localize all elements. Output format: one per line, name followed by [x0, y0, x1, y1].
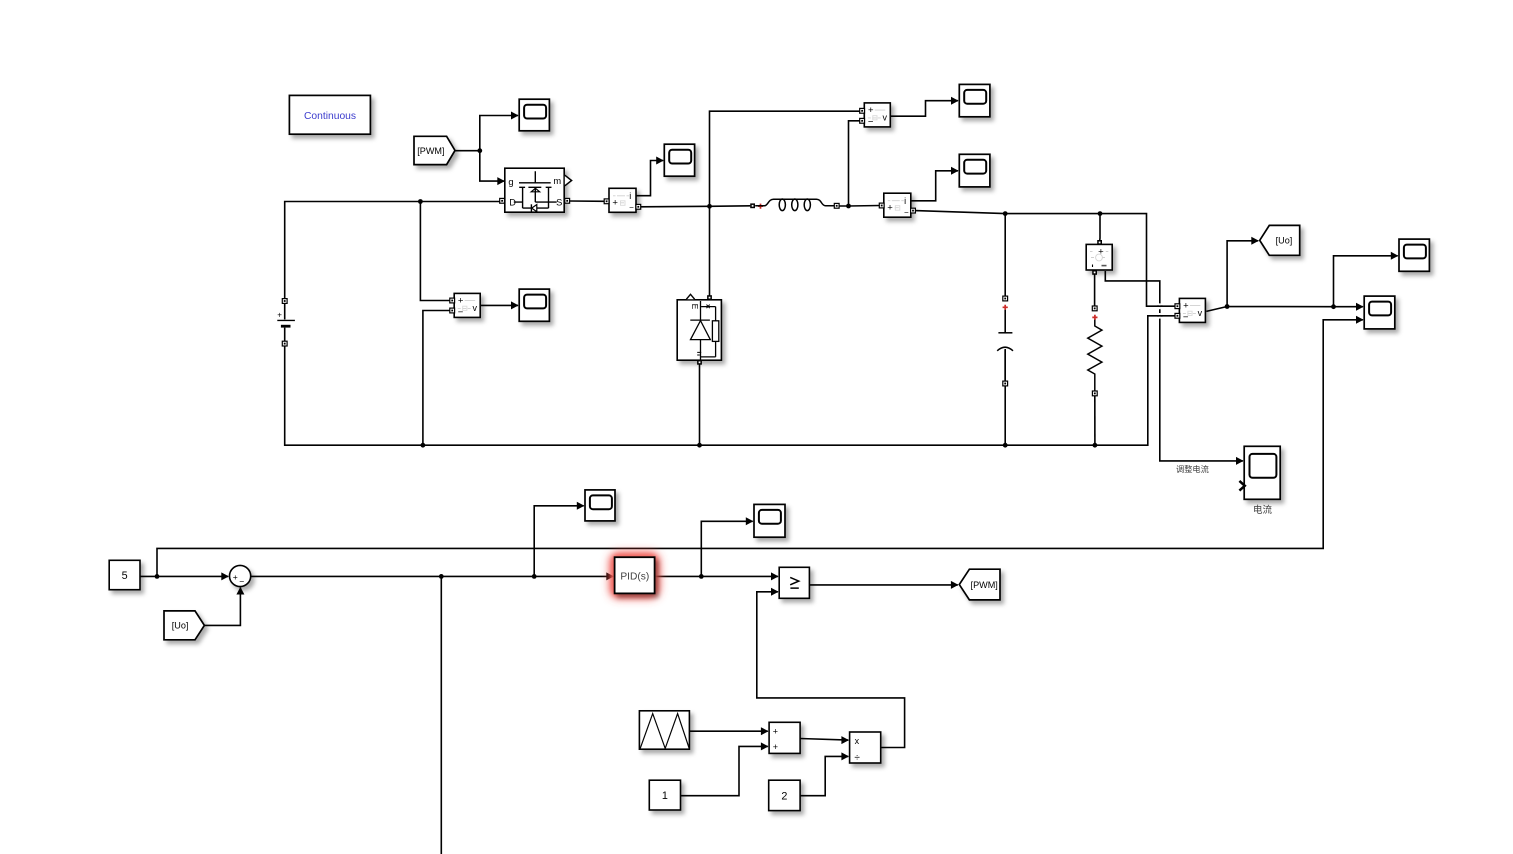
svg-text:g: g	[508, 177, 513, 187]
wire product output to relational operator second input	[757, 592, 905, 748]
inductor L1	[750, 203, 755, 208]
wire VL measurement output to scope	[890, 101, 958, 117]
diode D1 block	[677, 300, 721, 360]
junction Vin+/Vds+	[418, 199, 423, 204]
wire MOSFET S to current measurement I1 +	[569, 200, 605, 202]
scope Scope10 Vout vs ref	[1364, 296, 1395, 329]
svg-text:5: 5	[122, 570, 128, 582]
constant block 5 (reference)	[109, 560, 140, 589]
wire node A down to diode cathode	[709, 206, 711, 296]
wire repeating sequence to sum2	[689, 730, 767, 732]
wire junction down to Vds measurement + input	[420, 202, 450, 301]
relational operator &gt;= block	[779, 567, 809, 598]
wire bottom rail to Vds measurement - input	[423, 311, 450, 446]
svg-text:[Uo]: [Uo]	[1276, 236, 1293, 246]
wire error to scope6	[534, 506, 584, 577]
diode cathode port	[707, 295, 712, 300]
constant block 1	[649, 780, 680, 810]
From tag [Uo] bottom	[164, 611, 204, 640]
svg-text:+: +	[233, 572, 238, 582]
current measurement I2	[884, 193, 911, 217]
svg-text:m: m	[553, 176, 561, 186]
wire resistor R1 to bottom rail	[1094, 394, 1096, 446]
wire sum2 to product	[800, 739, 848, 741]
svg-text:[PWM]: [PWM]	[417, 146, 444, 156]
svg-text:E: E	[690, 304, 700, 310]
wire I3 to resistor R1	[1094, 272, 1096, 308]
resistor R1 (load)	[1092, 306, 1097, 311]
scope Scope4 IL	[959, 154, 990, 187]
svg-text:v: v	[1198, 308, 1203, 318]
svg-text:+: +	[277, 311, 282, 320]
svg-text:调整电流: 调整电流	[1176, 464, 1209, 474]
junction error signal to bottom	[439, 574, 444, 579]
junction bottom rail / resistor	[1093, 443, 1098, 448]
product/divide block	[850, 732, 881, 763]
scope Scope5 Vds	[519, 289, 549, 321]
junction bottom rail / capacitor	[1003, 443, 1008, 448]
svg-text:−: −	[629, 203, 634, 212]
junction Vout/resistor branch	[1098, 211, 1103, 216]
scope Scope6 error	[585, 490, 615, 521]
svg-text:v: v	[472, 303, 477, 313]
wire I2 i output to scope	[911, 171, 959, 201]
wire PID output to relational operator	[655, 575, 778, 577]
wire crossing gaps	[1159, 303, 1161, 318]
wire junction up to scope9	[1334, 256, 1398, 307]
voltage measurement VL	[864, 103, 890, 127]
wire constant5 to sum	[140, 575, 228, 577]
Goto tag [Uo] top right	[1260, 225, 1300, 255]
wire junction up to goto [Uo]	[1227, 241, 1258, 307]
current measurement I3 (load)	[1086, 244, 1112, 270]
scope Scope3 VL	[959, 84, 990, 116]
junction PID output	[699, 574, 704, 579]
svg-text:+: +	[773, 742, 778, 752]
MOSFET m output unconnected arrow	[565, 175, 572, 186]
current measurement I1	[609, 188, 636, 212]
sum block S2	[769, 722, 800, 753]
wire constant2 to product divide input	[800, 756, 848, 795]
svg-text:x: x	[855, 736, 860, 746]
svg-text:+: +	[868, 105, 874, 116]
wire I1 i output to scope2	[636, 161, 663, 196]
MOSFET D port	[500, 198, 505, 203]
repeating sequence block (sawtooth)	[639, 711, 689, 749]
junction error signal to scope6	[532, 574, 537, 579]
wire capacitor branch	[1004, 214, 1006, 299]
junction bottom rail / battery-	[421, 443, 426, 448]
svg-text:−: −	[904, 208, 909, 217]
MOSFET Q1 block	[505, 168, 564, 212]
svg-text:PID(s): PID(s)	[620, 571, 649, 582]
junction bottom rail / diode	[697, 443, 702, 448]
PID controller block with red highlight glow	[610, 552, 660, 598]
powergui block Continuous	[289, 95, 370, 134]
wire I1 - to diode node	[640, 206, 750, 207]
wire node A up to VL measurement + input	[710, 111, 861, 206]
junction to goto Uo	[1225, 304, 1230, 309]
wire resistor branch top to I3	[1099, 214, 1101, 242]
wire I3 i output to current scope (labeled wire)	[1105, 271, 1243, 461]
junction after constant 5	[155, 574, 160, 579]
svg-text:+: +	[1183, 301, 1189, 312]
Goto tag [PWM] right	[959, 569, 1000, 600]
scope Scope7 duty	[754, 504, 785, 537]
voltage measurement Vout	[1179, 298, 1205, 322]
diode m port unconnected arrow	[686, 294, 694, 299]
voltage measurement Vds	[454, 293, 480, 317]
junction inductor/VL-	[846, 204, 851, 209]
svg-text:+: +	[887, 203, 893, 214]
svg-text:[Uo]: [Uo]	[172, 621, 189, 631]
wire sum output to PID	[251, 575, 613, 577]
svg-text:电流: 电流	[1253, 504, 1273, 516]
scope Scope9 Vout	[1399, 239, 1429, 271]
junction Vout/capacitor	[1003, 211, 1008, 216]
MOSFET S port	[565, 198, 570, 203]
wire Vds measurement output to scope	[480, 304, 518, 306]
scope Scope2 IGBT current	[664, 144, 694, 176]
wire battery+ to MOSFET D (net Vin+)	[285, 202, 500, 302]
wire PID output up to scope7	[701, 521, 752, 576]
svg-text:+: +	[1098, 246, 1104, 257]
wire Vout measurement output to [Uo] junction	[1206, 307, 1363, 312]
DC voltage source B1	[282, 299, 287, 304]
sum block S1 (error)	[230, 565, 251, 586]
node A junction diode top	[707, 204, 712, 209]
svg-text:+: +	[458, 296, 464, 307]
svg-text:−: −	[239, 576, 244, 586]
diode anode port	[697, 360, 702, 365]
wire constant1 to sum2	[681, 746, 768, 795]
wire inductor out to I2 +	[839, 205, 880, 208]
svg-text:+: +	[773, 727, 778, 737]
svg-text:÷: ÷	[854, 753, 860, 764]
From tag [PWM]	[414, 136, 455, 164]
scope 电流 current scope	[1244, 446, 1280, 499]
wire reference 5 feedback to scope10 lower input	[157, 320, 1363, 577]
wire relational operator to goto [PWM]	[809, 584, 957, 586]
capacitor C1	[1003, 296, 1008, 301]
svg-text:S: S	[556, 197, 562, 207]
svg-text:1: 1	[662, 790, 668, 802]
unconnected input X mark	[1239, 481, 1244, 491]
svg-text:Continuous: Continuous	[304, 111, 356, 122]
svg-text:[PWM]: [PWM]	[971, 580, 998, 590]
svg-text:+: +	[612, 198, 618, 209]
svg-text:i: i	[904, 196, 906, 206]
wire I2 - to output node (net Vout)	[915, 211, 1176, 307]
scope Scope1 PWM	[519, 99, 549, 131]
svg-text:i: i	[629, 191, 631, 201]
wire diode anode to bottom rail	[699, 364, 701, 445]
junction to top scope	[1331, 304, 1336, 309]
constant block 2	[769, 780, 800, 810]
wire junction up to VL measurement - input	[849, 121, 861, 206]
wire from [Uo] to sum - input	[204, 588, 240, 626]
wire error signal down off-page	[440, 576, 442, 854]
svg-text:v: v	[883, 112, 888, 122]
bottom rail wire (net GND)	[285, 316, 1176, 445]
svg-text:2: 2	[781, 790, 787, 802]
wire from [PWM] tag to gate and scope	[455, 150, 480, 152]
